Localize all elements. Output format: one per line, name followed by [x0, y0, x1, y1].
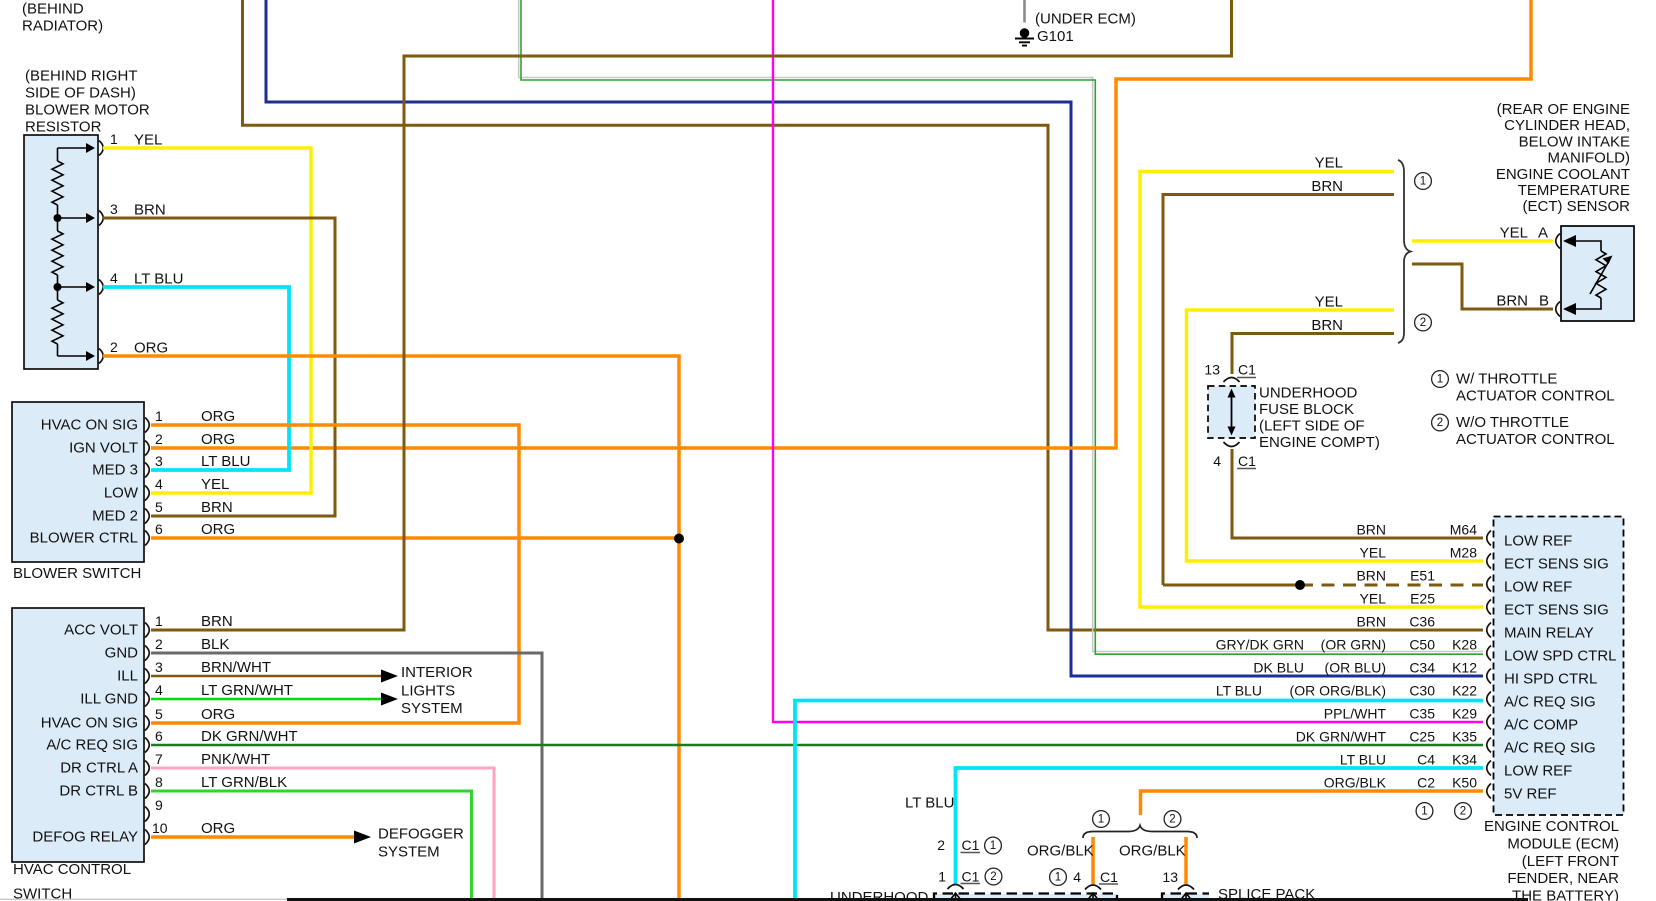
- svg-text:BRN: BRN: [201, 499, 233, 516]
- arrow to interior lights (ILL GND): [381, 693, 398, 706]
- svg-text:C25: C25: [1409, 729, 1435, 745]
- svg-text:(OR ORG/BLK): (OR ORG/BLK): [1290, 683, 1386, 699]
- svg-text:(BEHIND RIGHT: (BEHIND RIGHT: [25, 68, 138, 85]
- label circled 2 right branch: [1164, 811, 1181, 828]
- blower switch pin 2 (IGN VOLT) connector: [145, 441, 149, 456]
- ECM pin E51 (LOW REF) connector: [1487, 577, 1491, 592]
- wire ORG IGN VOLT feeder to top edge: [151, 0, 1531, 448]
- svg-text:LT BLU: LT BLU: [201, 453, 250, 470]
- svg-text:BLOWER MOTOR: BLOWER MOTOR: [25, 102, 150, 119]
- svg-text:BELOW INTAKE: BELOW INTAKE: [1519, 133, 1630, 150]
- svg-text:LT GRN/WHT: LT GRN/WHT: [201, 682, 293, 699]
- svg-text:BRN/WHT: BRN/WHT: [201, 659, 271, 676]
- svg-text:1: 1: [1421, 806, 1427, 818]
- HVAC control switch pin 7 (DR CTRL A) connector: [145, 761, 149, 776]
- connector C1 pin 4 (fuse block bottom): [1224, 442, 1240, 447]
- wire LT GRN/BLK DR CTRL B to bottom: [151, 791, 472, 898]
- svg-text:W/O THROTTLE: W/O THROTTLE: [1456, 414, 1569, 431]
- wire LT BLU A/C request from underhood block to ECM C30: [795, 701, 1483, 899]
- svg-text:(REAR OF ENGINE: (REAR OF ENGINE: [1497, 101, 1630, 118]
- junction dot tap pin 3: [54, 214, 62, 222]
- svg-text:M64: M64: [1450, 522, 1477, 538]
- svg-text:BRN: BRN: [1356, 522, 1386, 538]
- wire GRY/DK GRN feeder to LOW SPD CTRL (gray stripe): [519, 0, 1483, 652]
- svg-text:ORG: ORG: [201, 408, 235, 425]
- svg-text:(ECT) SENSOR: (ECT) SENSOR: [1522, 198, 1630, 215]
- svg-text:3: 3: [110, 201, 118, 217]
- wire YEL ECT signal (w/ TAC) to bracket and ECM E25: [1140, 172, 1483, 608]
- svg-text:2: 2: [1169, 814, 1175, 826]
- label circled 2 ECM K-column note: [1455, 803, 1472, 820]
- wire PPL/WHT feeder to A/C COMP: [773, 0, 1483, 722]
- svg-text:C30: C30: [1409, 683, 1435, 699]
- junction dot tap pin 4: [54, 283, 62, 291]
- svg-text:K35: K35: [1452, 729, 1477, 745]
- svg-text:BRN: BRN: [201, 613, 233, 630]
- HVAC control switch pin 9 (n/c) connector: [145, 807, 149, 822]
- underhood fuse block box: [1208, 386, 1255, 438]
- svg-text:ORG: ORG: [134, 340, 168, 357]
- label circled 1 org/blk pin4 note: [1050, 869, 1067, 886]
- wire DK BLU feeder to HI SPD CTRL: [266, 0, 1483, 676]
- resistor R1 blower motor resistor box: [24, 135, 98, 369]
- blower switch pin 6 (BLOWER CTRL) connector: [145, 531, 149, 546]
- svg-text:ORG: ORG: [201, 706, 235, 723]
- label circled 2 note w/o throttle: [1432, 414, 1449, 431]
- underhood fuse block (bottom, cut off): [934, 894, 1117, 901]
- svg-text:CYLINDER HEAD,: CYLINDER HEAD,: [1504, 117, 1630, 134]
- connector arc cyan into underhood block: [948, 885, 964, 890]
- svg-text:1: 1: [155, 408, 163, 424]
- brace joining ORG/BLK branches: [1083, 826, 1197, 839]
- switch S1 blower switch box: [12, 402, 144, 562]
- wire LT GRN/WHT ILL GND to interior lights: [151, 698, 381, 701]
- switch S2 HVAC control switch box: [12, 608, 144, 862]
- splice pack box (cut off): [1162, 894, 1209, 901]
- svg-text:C2: C2: [1417, 775, 1435, 791]
- ECM pin M28 (ECT SENS SIG) connector: [1487, 554, 1491, 569]
- wire LT BLU resistor pin4 to blower switch MED 3: [103, 287, 289, 470]
- svg-text:HVAC CONTROL: HVAC CONTROL: [13, 861, 131, 878]
- svg-text:RADIATOR): RADIATOR): [22, 18, 103, 35]
- svg-text:A/C REQ SIG: A/C REQ SIG: [46, 737, 138, 754]
- svg-text:ORG/BLK: ORG/BLK: [1027, 843, 1094, 860]
- wire YEL to ECT sensor pin A: [1412, 239, 1553, 243]
- label circled 2 cyan pin1 note: [985, 868, 1002, 885]
- fuse block internal double arrow: [1231, 392, 1233, 432]
- svg-text:3: 3: [155, 659, 163, 675]
- wire LT BLU low ref from underhood block to ECM C4: [956, 768, 1484, 884]
- svg-text:C50: C50: [1409, 637, 1435, 653]
- svg-text:C34: C34: [1409, 660, 1435, 676]
- svg-text:LOW: LOW: [104, 485, 139, 502]
- svg-text:ORG: ORG: [201, 521, 235, 538]
- wire YEL resistor pin1 to blower switch LOW: [103, 148, 311, 493]
- svg-text:UNDERHOOD: UNDERHOOD: [1259, 385, 1358, 402]
- svg-text:4: 4: [1073, 869, 1081, 885]
- svg-text:PNK/WHT: PNK/WHT: [201, 751, 270, 768]
- HVAC control switch pin 1 (ACC VOLT) connector: [145, 623, 149, 638]
- svg-text:5: 5: [155, 706, 163, 722]
- sensor pin B connector: [1556, 302, 1560, 317]
- svg-text:MAIN RELAY: MAIN RELAY: [1504, 625, 1594, 642]
- svg-text:4: 4: [110, 270, 118, 286]
- ECM pin C4 (LOW REF) connector: [1487, 761, 1491, 776]
- junction dot BRN E51: [1295, 580, 1305, 590]
- resistor element R1a: [52, 161, 63, 205]
- HVAC control switch pin 8 (DR CTRL B) connector: [145, 784, 149, 799]
- svg-text:LOW REF: LOW REF: [1504, 763, 1572, 780]
- label circled 2 w/o throttle actuator group: [1415, 314, 1432, 331]
- svg-text:5: 5: [155, 499, 163, 515]
- svg-text:BRN: BRN: [134, 202, 166, 219]
- svg-text:YEL: YEL: [1500, 225, 1528, 242]
- label circled 1 w/ throttle actuator group: [1415, 173, 1432, 190]
- svg-text:(LEFT SIDE OF: (LEFT SIDE OF: [1259, 418, 1365, 435]
- svg-text:2: 2: [1420, 317, 1426, 329]
- svg-text:8: 8: [155, 774, 163, 790]
- svg-text:BRN: BRN: [1311, 178, 1343, 195]
- svg-text:HI SPD CTRL: HI SPD CTRL: [1504, 671, 1597, 688]
- svg-text:LT BLU: LT BLU: [905, 795, 954, 812]
- bracket merging sensor wires: [1398, 160, 1411, 343]
- svg-text:YEL: YEL: [201, 476, 229, 493]
- resistor element R1b: [52, 231, 63, 275]
- svg-text:MED 2: MED 2: [92, 508, 138, 525]
- svg-text:7: 7: [155, 751, 163, 767]
- ECM pin C30 (A/C REQ SIG) connector: [1487, 692, 1491, 707]
- svg-text:4: 4: [1213, 453, 1221, 469]
- svg-text:(OR BLU): (OR BLU): [1325, 660, 1386, 676]
- svg-text:2: 2: [1460, 806, 1466, 818]
- wire BLK GND to bottom bus: [151, 653, 542, 898]
- svg-text:(LEFT FRONT: (LEFT FRONT: [1522, 853, 1619, 870]
- svg-text:W/ THROTTLE: W/ THROTTLE: [1456, 371, 1557, 388]
- svg-text:2: 2: [155, 431, 163, 447]
- svg-text:INTERIOR: INTERIOR: [401, 664, 473, 681]
- svg-text:K12: K12: [1452, 660, 1477, 676]
- wire BRN feeder top-left to MAIN RELAY: [243, 0, 1484, 630]
- svg-text:ORG: ORG: [201, 431, 235, 448]
- svg-text:YEL: YEL: [134, 132, 162, 149]
- svg-text:C35: C35: [1409, 706, 1435, 722]
- svg-text:DK GRN/WHT: DK GRN/WHT: [201, 728, 298, 745]
- blower switch pin 4 (LOW) connector: [145, 486, 149, 501]
- ECM pin C50 (LOW SPD CTRL) connector: [1487, 646, 1491, 661]
- ground G101 symbol: [1020, 28, 1030, 38]
- svg-text:LT GRN/BLK: LT GRN/BLK: [201, 774, 287, 791]
- wire BRN low ref (w/o TAC) to fuse block: [1232, 334, 1394, 375]
- svg-text:DEFOGGER: DEFOGGER: [378, 826, 464, 843]
- svg-text:BRN: BRN: [1356, 614, 1386, 630]
- wire ORG blower switch HVAC ON SIG to HVAC control switch: [151, 425, 519, 723]
- resistor internal conductor: [57, 148, 59, 356]
- blower switch pin 3 (MED 3) connector: [145, 463, 149, 478]
- svg-text:1: 1: [1055, 872, 1061, 884]
- svg-text:C1: C1: [962, 869, 980, 885]
- svg-text:BLOWER SWITCH: BLOWER SWITCH: [13, 565, 141, 582]
- svg-text:(UNDER ECM): (UNDER ECM): [1035, 11, 1136, 28]
- svg-text:K29: K29: [1452, 706, 1477, 722]
- svg-text:MANIFOLD): MANIFOLD): [1548, 150, 1631, 167]
- svg-text:LOW SPD CTRL: LOW SPD CTRL: [1504, 648, 1617, 665]
- svg-text:(BEHIND: (BEHIND: [22, 1, 84, 18]
- svg-text:A/C COMP: A/C COMP: [1504, 717, 1578, 734]
- svg-text:FUSE BLOCK: FUSE BLOCK: [1259, 401, 1354, 418]
- svg-text:1: 1: [110, 131, 118, 147]
- svg-text:ACTUATOR CONTROL: ACTUATOR CONTROL: [1456, 431, 1615, 448]
- svg-text:2: 2: [937, 837, 945, 853]
- svg-text:5V REF: 5V REF: [1504, 786, 1557, 803]
- svg-text:IGN VOLT: IGN VOLT: [69, 440, 138, 457]
- svg-text:MED 3: MED 3: [92, 462, 138, 479]
- svg-text:SYSTEM: SYSTEM: [401, 700, 463, 717]
- svg-text:YEL: YEL: [1315, 294, 1343, 311]
- wire BRN fuse block pin4 to ECM M64: [1232, 449, 1483, 538]
- svg-text:MODULE (ECM): MODULE (ECM): [1507, 835, 1619, 852]
- connector arc org/blk into splice pack: [1178, 885, 1194, 890]
- svg-text:9: 9: [155, 797, 163, 813]
- svg-text:K22: K22: [1452, 683, 1477, 699]
- svg-text:K34: K34: [1452, 752, 1477, 768]
- arrow to defogger system: [354, 831, 371, 844]
- svg-text:BRN: BRN: [1311, 317, 1343, 334]
- sensor pin A connector: [1556, 234, 1560, 249]
- wire ORG/BLK 5V REF from ECM C2 to splice brace: [1141, 791, 1484, 815]
- svg-text:DK GRN/WHT: DK GRN/WHT: [1296, 729, 1387, 745]
- svg-text:A/C REQ SIG: A/C REQ SIG: [1504, 694, 1596, 711]
- svg-text:RESISTOR: RESISTOR: [25, 119, 102, 136]
- svg-text:C1: C1: [962, 837, 980, 853]
- resistor internal taps: [58, 147, 87, 149]
- svg-text:BRN: BRN: [1356, 568, 1386, 584]
- svg-text:C1: C1: [1100, 869, 1118, 885]
- svg-text:ECT SENS SIG: ECT SENS SIG: [1504, 556, 1609, 573]
- ECM pin C36 (MAIN RELAY) connector: [1487, 623, 1491, 638]
- HVAC control switch pin 10 (DEFOG RELAY) connector: [145, 830, 149, 845]
- svg-text:SYSTEM: SYSTEM: [378, 844, 440, 861]
- svg-text:E51: E51: [1410, 568, 1435, 584]
- blower switch pin 5 (MED 2) connector: [145, 509, 149, 524]
- svg-text:HVAC ON SIG: HVAC ON SIG: [41, 715, 138, 732]
- svg-text:ORG: ORG: [201, 820, 235, 837]
- svg-text:10: 10: [152, 820, 168, 836]
- HVAC control switch pin 6 (A/C REQ SIG) connector: [145, 738, 149, 753]
- wire ORG resistor pin2 down to junction: [103, 356, 679, 898]
- svg-text:YEL: YEL: [1315, 155, 1343, 172]
- wire ORG/BLK stub to underhood fuse block: [1091, 837, 1095, 884]
- svg-text:2: 2: [990, 871, 996, 883]
- label circled 1 cyan pin2 note: [985, 837, 1002, 854]
- svg-text:C36: C36: [1409, 614, 1435, 630]
- connector C1 pin 13 (fuse block top): [1224, 378, 1240, 383]
- HVAC control switch pin 3 (ILL) connector: [145, 669, 149, 684]
- svg-text:LIGHTS: LIGHTS: [401, 683, 455, 700]
- svg-text:B: B: [1539, 293, 1549, 310]
- svg-text:ECT SENS SIG: ECT SENS SIG: [1504, 602, 1609, 619]
- wire ground lead (UNDER ECM): [1023, 0, 1026, 23]
- sensor U1 ECT sensor box: [1561, 226, 1634, 321]
- wire BRN to ECT sensor pin B: [1412, 264, 1553, 309]
- ECM pin M64 (LOW REF) connector: [1487, 531, 1491, 546]
- svg-text:ENGINE COMPT): ENGINE COMPT): [1259, 434, 1380, 451]
- ECM pin E25 (ECT SENS SIG) connector: [1487, 600, 1491, 615]
- svg-text:G101: G101: [1037, 28, 1074, 45]
- bottom bus bar: [287, 898, 1528, 901]
- svg-text:TEMPERATURE: TEMPERATURE: [1518, 182, 1630, 199]
- svg-text:ILL: ILL: [117, 668, 138, 685]
- svg-text:LT BLU: LT BLU: [1216, 683, 1262, 699]
- svg-text:E25: E25: [1410, 591, 1435, 607]
- connector arc org/blk into underhood block: [1085, 885, 1101, 890]
- bottom edge line left: [0, 898, 287, 900]
- svg-text:M28: M28: [1450, 545, 1477, 561]
- wire BRN low ref (w/ TAC) solid part: [1163, 195, 1394, 586]
- resistor pin connectors: [99, 141, 103, 156]
- svg-text:LOW REF: LOW REF: [1504, 533, 1572, 550]
- label circled 1 left branch: [1093, 811, 1110, 828]
- HVAC control switch pin 2 (GND) connector: [145, 646, 149, 661]
- svg-text:SIDE OF DASH): SIDE OF DASH): [25, 85, 136, 102]
- svg-text:13: 13: [1204, 362, 1220, 378]
- svg-text:ACC VOLT: ACC VOLT: [64, 622, 138, 639]
- svg-text:DK BLU: DK BLU: [1253, 660, 1304, 676]
- svg-text:A: A: [1538, 225, 1548, 242]
- svg-text:4: 4: [155, 682, 163, 698]
- svg-text:C1: C1: [1238, 453, 1256, 469]
- ECM pin C2 (5V REF) connector: [1487, 784, 1491, 799]
- HVAC control switch pin 5 (HVAC ON SIG) connector: [145, 716, 149, 731]
- wire BRN/WHT ILL to interior lights: [151, 675, 381, 678]
- svg-text:ACTUATOR CONTROL: ACTUATOR CONTROL: [1456, 388, 1615, 405]
- svg-text:DEFOG RELAY: DEFOG RELAY: [32, 829, 138, 846]
- svg-text:DR CTRL B: DR CTRL B: [59, 783, 138, 800]
- ECM pin C35 (A/C COMP) connector: [1487, 715, 1491, 730]
- label circled 1 ECM C-column note: [1416, 803, 1433, 820]
- svg-text:BRN: BRN: [1496, 293, 1528, 310]
- svg-text:BLOWER CTRL: BLOWER CTRL: [30, 530, 138, 547]
- wire YEL ECT signal (w/o TAC) to ECM M28: [1187, 310, 1484, 561]
- svg-text:1: 1: [990, 840, 996, 852]
- svg-text:LOW REF: LOW REF: [1504, 579, 1572, 596]
- svg-text:C1: C1: [1238, 362, 1256, 378]
- svg-text:BLK: BLK: [201, 636, 229, 653]
- svg-text:ENGINE COOLANT: ENGINE COOLANT: [1496, 166, 1630, 183]
- svg-text:13: 13: [1162, 869, 1178, 885]
- wire ORG/BLK stub to splice pack: [1184, 837, 1188, 884]
- label circled 1 note w/ throttle: [1432, 371, 1449, 388]
- svg-text:PPL/WHT: PPL/WHT: [1324, 706, 1387, 722]
- wire ORG DEFOG RELAY to defogger system: [151, 835, 354, 839]
- svg-text:2: 2: [155, 636, 163, 652]
- svg-text:THE BATTERY): THE BATTERY): [1512, 888, 1619, 901]
- ECM pin C25 (A/C REQ SIG) connector: [1487, 738, 1491, 753]
- junction dot ORG blower ctrl: [674, 534, 684, 544]
- arrow to interior lights (ILL): [381, 670, 398, 683]
- HVAC control switch pin 4 (ILL GND) connector: [145, 692, 149, 707]
- svg-text:YEL: YEL: [1360, 545, 1387, 561]
- svg-text:ILL GND: ILL GND: [80, 691, 138, 708]
- svg-text:GND: GND: [105, 645, 139, 662]
- sensor internal thermistor: [1563, 235, 1576, 247]
- wire BRN resistor pin3 to blower switch MED 2: [103, 218, 335, 516]
- svg-text:1: 1: [1437, 374, 1443, 386]
- svg-text:ORG/BLK: ORG/BLK: [1324, 775, 1387, 791]
- svg-text:LT BLU: LT BLU: [134, 271, 183, 288]
- svg-text:(OR GRN): (OR GRN): [1321, 637, 1386, 653]
- wire BRN ACC VOLT up-and-over to top edge: [151, 0, 1232, 630]
- svg-text:1: 1: [155, 613, 163, 629]
- svg-text:HVAC ON SIG: HVAC ON SIG: [41, 417, 138, 434]
- ECM pin C34 (HI SPD CTRL) connector: [1487, 669, 1491, 684]
- wire BRN low ref dashed segment to ECM E51: [1163, 584, 1300, 587]
- svg-text:1: 1: [1420, 176, 1426, 188]
- svg-text:4: 4: [155, 476, 163, 492]
- module U2 engine control module box: [1494, 517, 1624, 816]
- svg-text:K28: K28: [1452, 637, 1477, 653]
- svg-text:FENDER, NEAR: FENDER, NEAR: [1507, 870, 1619, 887]
- svg-text:GRY/DK GRN: GRY/DK GRN: [1216, 637, 1304, 653]
- svg-text:2: 2: [1437, 417, 1443, 429]
- svg-text:1: 1: [1098, 814, 1104, 826]
- svg-text:6: 6: [155, 728, 163, 744]
- svg-text:LT BLU: LT BLU: [1340, 752, 1386, 768]
- svg-text:3: 3: [155, 453, 163, 469]
- svg-text:YEL: YEL: [1360, 591, 1387, 607]
- wire GRY/DK GRN feeder to LOW SPD CTRL (green stripe): [521, 0, 1483, 654]
- svg-text:1: 1: [938, 869, 946, 885]
- resistor element R1c: [52, 300, 63, 344]
- blower switch pin 1 (HVAC ON SIG) connector: [145, 418, 149, 433]
- wire PNK/WHT DR CTRL A to bottom: [151, 768, 494, 898]
- wire ORG blower switch BLOWER CTRL to junction: [151, 536, 679, 540]
- svg-text:2: 2: [110, 339, 118, 355]
- svg-text:ENGINE CONTROL: ENGINE CONTROL: [1484, 818, 1619, 835]
- svg-text:C4: C4: [1417, 752, 1435, 768]
- svg-text:A/C REQ SIG: A/C REQ SIG: [1504, 740, 1596, 757]
- svg-text:6: 6: [155, 521, 163, 537]
- svg-text:DR CTRL A: DR CTRL A: [60, 760, 138, 777]
- svg-text:K50: K50: [1452, 775, 1477, 791]
- wire DK GRN/WHT A/C REQ SIG to ECM: [151, 744, 1483, 747]
- svg-text:ORG/BLK: ORG/BLK: [1119, 843, 1186, 860]
